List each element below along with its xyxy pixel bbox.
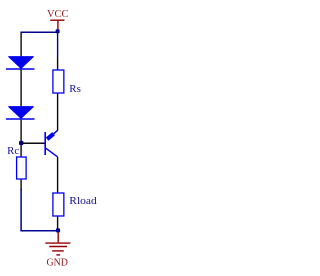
pin Rc bottom — [20, 180, 22, 190]
wire D2 cathode down to base node — [20, 120, 22, 141]
pin Rs top — [57, 58, 59, 69]
transistor Q1 emitter with arrow — [47, 130, 58, 139]
junction dot at VCC node — [56, 29, 60, 33]
transistor Q1 PNP base bar — [44, 132, 46, 155]
svg-text:Rc: Rc — [7, 146, 19, 157]
resistor Rc body — [17, 157, 27, 179]
wire VCC node down to Rs — [57, 33, 59, 58]
wire base node down to Rc — [20, 145, 22, 156]
ground symbol bar 1 — [45, 242, 70, 244]
svg-text:Rs: Rs — [69, 84, 81, 95]
ground symbol stem — [57, 232, 59, 242]
wire between D1 cathode and D2 anode — [20, 70, 22, 107]
diode D1 — [6, 57, 35, 69]
ground symbol bar 2 — [49, 246, 67, 248]
svg-text:Rload: Rload — [69, 196, 97, 207]
wire base node to transistor base — [21, 142, 45, 144]
wire Rload bottom to ground rail — [57, 217, 59, 229]
power VCC symbol bar — [50, 19, 64, 21]
svg-text:GND: GND — [47, 257, 68, 269]
junction dot at base node — [19, 141, 23, 145]
ground symbol bar 3 — [52, 250, 64, 252]
wire Rc to ground rail — [21, 189, 58, 231]
wire left vertical to D1 anode — [20, 33, 22, 57]
resistor Rload body — [53, 193, 64, 216]
transistor Q1 collector — [46, 148, 58, 157]
power VCC symbol stem — [57, 20, 59, 30]
wire Rs bottom to transistor emitter — [57, 94, 59, 131]
wire collector down to Rload — [57, 157, 59, 193]
junction dot at ground node — [56, 228, 60, 232]
wire top horizontal VCC rail — [20, 31, 57, 33]
svg-text:VCC: VCC — [47, 8, 69, 20]
resistor Rs body — [53, 70, 64, 93]
ground symbol bar 4 — [56, 254, 60, 256]
diode D2 — [6, 107, 35, 119]
